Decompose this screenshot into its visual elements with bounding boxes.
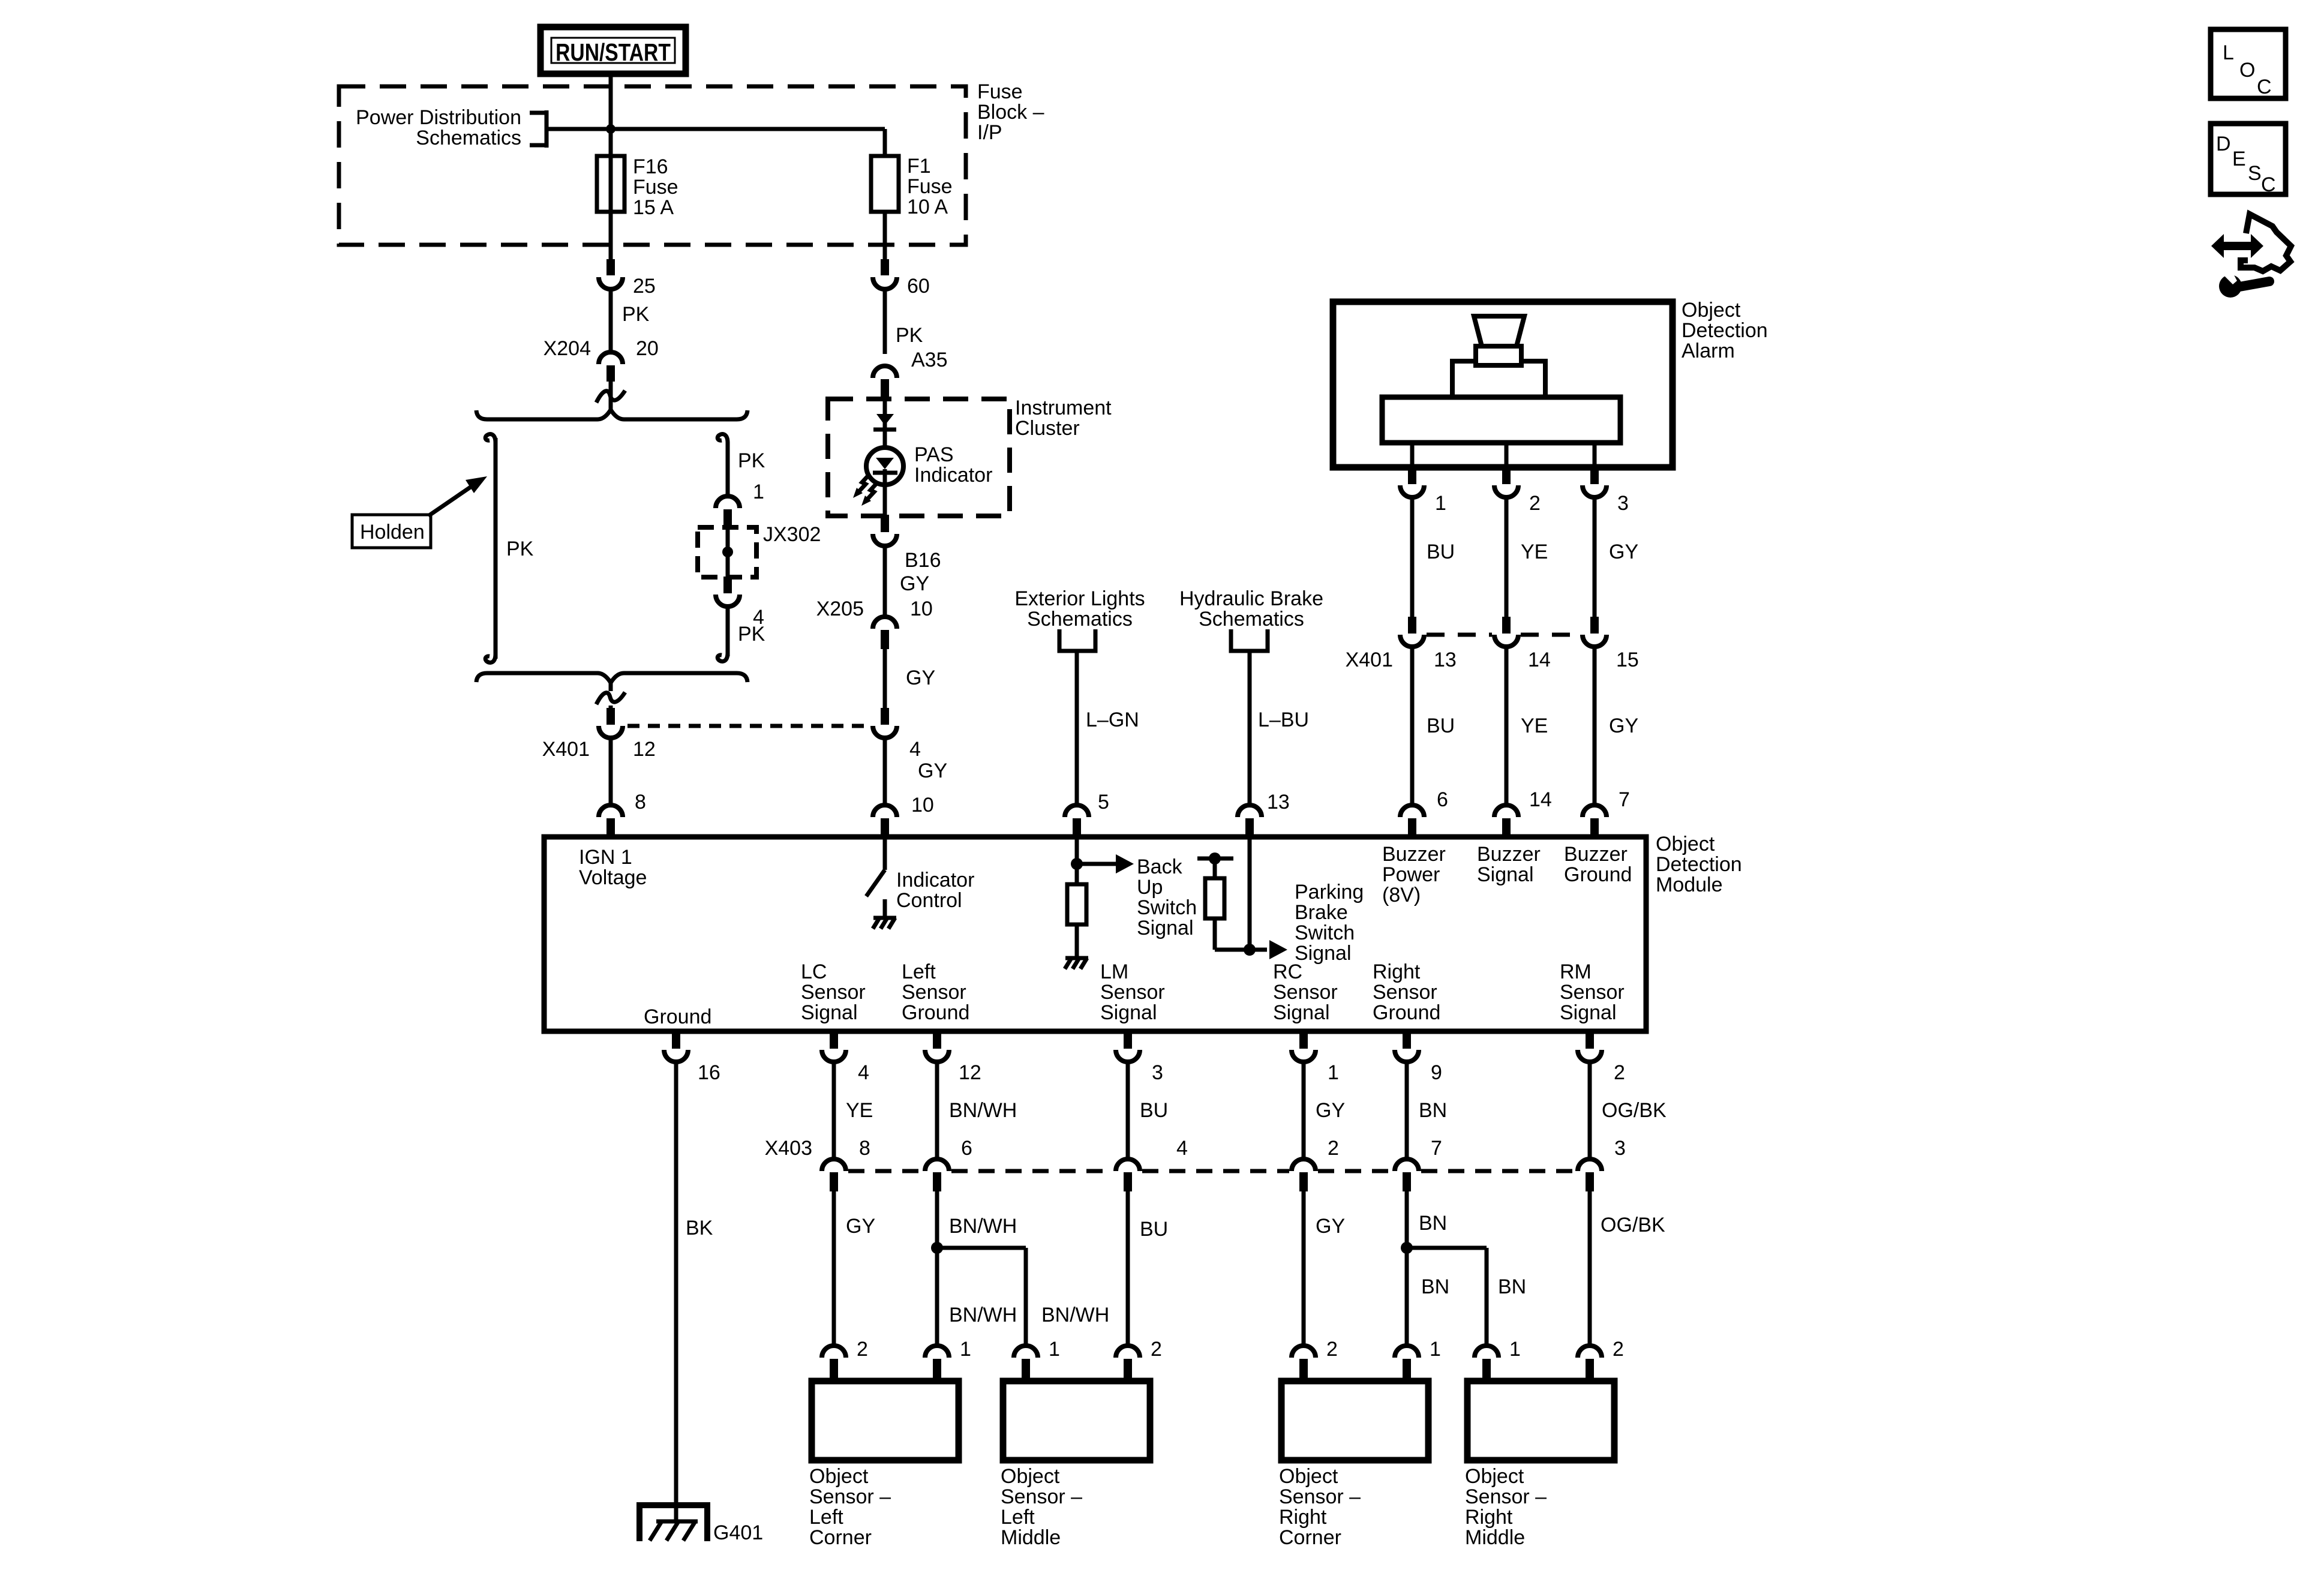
wire YE alarm to X401 <box>1505 497 1509 618</box>
instrument cluster dashed box <box>828 399 1010 516</box>
svg-text:Sensor: Sensor <box>1273 981 1338 1004</box>
sensor pin 1 connector <box>1395 1346 1419 1382</box>
fuse F16 15A <box>597 129 624 260</box>
sensor pin 2 connector <box>822 1346 846 1382</box>
branch wire to RM pin 1 <box>1407 1248 1487 1347</box>
wire PK F16 to X204 <box>609 289 613 352</box>
label Left Sensor Ground <box>902 960 969 1024</box>
label Power Distribution Schematics <box>356 106 521 149</box>
svg-text:2: 2 <box>857 1338 868 1361</box>
svg-text:Signal: Signal <box>801 1001 858 1024</box>
object sensor Right Corner box <box>1281 1381 1428 1460</box>
connector A35 <box>873 366 897 398</box>
svg-text:Object: Object <box>1279 1465 1338 1488</box>
X401 dashed bus right <box>1427 633 1492 637</box>
svg-text:Back: Back <box>1137 855 1183 878</box>
alarm wire 1 <box>1410 443 1415 469</box>
svg-text:Ground: Ground <box>1564 863 1632 886</box>
svg-text:Sensor –: Sensor – <box>1001 1485 1082 1508</box>
car direction icon <box>2211 214 2291 271</box>
wire BN/WH X403 to junction <box>935 1191 939 1347</box>
svg-text:2: 2 <box>1328 1137 1339 1160</box>
svg-text:F1: F1 <box>907 155 931 178</box>
ground G401 symbol <box>639 1505 707 1541</box>
svg-text:12: 12 <box>959 1061 981 1084</box>
bracket from Power Distribution label <box>530 110 547 148</box>
svg-text:L: L <box>2223 41 2234 64</box>
svg-text:RM: RM <box>1560 960 1592 983</box>
LED diode symbol <box>873 458 897 516</box>
left option branch bracket <box>485 434 496 663</box>
wire BN/WH module to X403 <box>935 1062 939 1160</box>
svg-text:GY: GY <box>846 1215 875 1238</box>
resistor back up <box>1067 884 1086 924</box>
svg-text:Schematics: Schematics <box>1027 608 1133 631</box>
svg-text:(8V): (8V) <box>1382 884 1421 906</box>
wire brace to X401-12 <box>609 680 613 709</box>
wire RUN/START to fuse block <box>609 74 613 129</box>
label Buzzer Ground <box>1564 843 1632 886</box>
sensor pin 1 connector <box>1475 1346 1499 1382</box>
svg-text:PK: PK <box>896 324 923 347</box>
wire resistor to junction <box>1215 918 1287 959</box>
svg-text:L–BU: L–BU <box>1258 709 1309 731</box>
svg-text:Sensor: Sensor <box>1373 981 1437 1004</box>
connector X401 pin 13 <box>1400 617 1424 647</box>
object sensor Right Middle box <box>1467 1381 1614 1460</box>
svg-text:Detection: Detection <box>1656 853 1742 876</box>
svg-text:1: 1 <box>1430 1338 1441 1361</box>
svg-text:Signal: Signal <box>1560 1001 1617 1024</box>
svg-text:8: 8 <box>635 791 646 813</box>
svg-text:GY: GY <box>1609 715 1638 737</box>
wire break symbol <box>596 692 625 704</box>
label F1 Fuse 10 A <box>907 155 953 218</box>
wire PK F1 to A35 <box>883 289 887 354</box>
wire break symbol <box>596 391 625 403</box>
JX302 internal wire and node <box>722 526 733 578</box>
Holden arrow <box>428 476 487 516</box>
module bottom pin 2 connector <box>1578 1031 1602 1062</box>
svg-text:Middle: Middle <box>1001 1526 1061 1549</box>
svg-text:Sensor –: Sensor – <box>1279 1485 1361 1508</box>
svg-text:Sensor –: Sensor – <box>1465 1485 1547 1508</box>
svg-text:Sensor: Sensor <box>801 981 866 1004</box>
svg-text:6: 6 <box>961 1137 972 1160</box>
svg-text:OG/BK: OG/BK <box>1601 1214 1665 1236</box>
svg-text:2: 2 <box>1326 1338 1338 1361</box>
Holden callout box <box>352 515 431 548</box>
svg-text:13: 13 <box>1267 791 1290 813</box>
svg-text:Left: Left <box>809 1506 843 1529</box>
svg-text:13: 13 <box>1434 649 1457 671</box>
label Back Up Switch Signal <box>1137 855 1197 939</box>
indicator control switch <box>866 839 885 917</box>
svg-text:X401: X401 <box>542 738 590 761</box>
svg-text:X403: X403 <box>765 1137 812 1160</box>
branch wire to LM pin 1 <box>937 1248 1026 1347</box>
label LM Sensor Signal <box>1100 960 1165 1024</box>
svg-text:Up: Up <box>1137 876 1163 899</box>
X403 dashed bus <box>848 1169 923 1173</box>
module buzzer pin 14 connector <box>1494 805 1518 837</box>
svg-text:X401: X401 <box>1346 649 1393 671</box>
label Indicator Control <box>896 869 974 912</box>
svg-text:BN: BN <box>1419 1212 1447 1235</box>
sensor pin 1 connector <box>1014 1346 1038 1382</box>
svg-text:RC: RC <box>1273 960 1302 983</box>
alarm pin 3 connector <box>1583 467 1607 497</box>
svg-text:15 A: 15 A <box>633 196 674 219</box>
module bottom pin 1 connector <box>1292 1031 1316 1062</box>
svg-text:Buzzer: Buzzer <box>1382 843 1446 866</box>
svg-text:Holden: Holden <box>360 521 425 544</box>
wire BU module to X403 <box>1126 1062 1130 1160</box>
svg-text:Middle: Middle <box>1465 1526 1525 1549</box>
LED light arrows <box>853 475 877 506</box>
svg-text:Ground: Ground <box>902 1001 969 1024</box>
svg-text:Object: Object <box>1682 299 1741 322</box>
svg-text:A35: A35 <box>911 349 948 371</box>
svg-text:E: E <box>2232 148 2246 170</box>
svg-text:Sensor: Sensor <box>1560 981 1625 1004</box>
module bottom pin 9 connector <box>1395 1031 1419 1062</box>
connector X204 pin 20 <box>599 352 623 382</box>
svg-text:8: 8 <box>859 1137 870 1160</box>
connector X403 pin 3 <box>1578 1159 1602 1191</box>
connector pin 25 below F16 <box>599 259 623 289</box>
svg-text:14: 14 <box>1528 649 1551 671</box>
svg-text:4: 4 <box>909 738 921 761</box>
svg-text:S: S <box>2248 162 2262 185</box>
ground inside module <box>873 916 896 920</box>
fuse block I/P dashed box <box>339 86 966 245</box>
svg-text:GY: GY <box>906 667 935 689</box>
svg-text:GY: GY <box>1609 541 1638 563</box>
label Object Sensor Left Corner <box>809 1465 891 1549</box>
svg-text:Switch: Switch <box>1295 921 1355 944</box>
svg-text:Object: Object <box>1001 1465 1060 1488</box>
svg-text:Schematics: Schematics <box>1199 608 1304 631</box>
svg-text:Fuse: Fuse <box>633 176 678 199</box>
bottom option brace <box>476 673 747 683</box>
connector X205 pin 10 <box>873 617 897 649</box>
label Object Detection Module <box>1656 833 1742 896</box>
svg-text:GY: GY <box>1316 1099 1345 1122</box>
svg-text:Buzzer: Buzzer <box>1477 843 1541 866</box>
svg-text:6: 6 <box>1437 788 1448 811</box>
svg-text:Signal: Signal <box>1100 1001 1157 1024</box>
svg-text:9: 9 <box>1431 1061 1442 1084</box>
svg-text:Alarm: Alarm <box>1682 340 1735 362</box>
svg-text:Right: Right <box>1465 1506 1513 1529</box>
svg-text:Corner: Corner <box>809 1526 872 1549</box>
svg-text:PAS: PAS <box>914 443 954 466</box>
svg-text:BN: BN <box>1419 1099 1447 1122</box>
connector X403 pin 2 <box>1292 1159 1316 1191</box>
svg-text:Corner: Corner <box>1279 1526 1341 1549</box>
svg-text:Right: Right <box>1279 1506 1327 1529</box>
wire GY module to X403 <box>1302 1062 1306 1160</box>
wire BU alarm to X401 <box>1410 497 1415 618</box>
svg-text:1: 1 <box>1435 492 1446 515</box>
svg-text:PK: PK <box>506 538 534 560</box>
connector X401 pin 15 <box>1583 617 1607 647</box>
DESC icon box <box>2211 124 2286 196</box>
wire OG/BK module to X403 <box>1588 1062 1592 1160</box>
svg-text:25: 25 <box>633 275 656 298</box>
label IGN 1 Voltage <box>579 846 647 889</box>
resistor parking brake <box>1205 878 1224 918</box>
svg-text:1: 1 <box>960 1338 971 1361</box>
object detection alarm box <box>1333 302 1673 467</box>
module pin 10 connector <box>873 805 897 837</box>
wire B16 to X205 <box>883 546 887 618</box>
svg-text:BK: BK <box>686 1217 713 1239</box>
svg-text:60: 60 <box>907 275 930 298</box>
svg-text:Module: Module <box>1656 873 1723 896</box>
svg-text:Cluster: Cluster <box>1015 417 1080 440</box>
label Fuse Block - I/P <box>977 80 1044 144</box>
module pin 5 connector <box>1065 805 1089 837</box>
svg-text:2: 2 <box>1529 492 1541 515</box>
alarm wire 3 <box>1593 443 1597 469</box>
svg-text:D: D <box>2216 133 2231 155</box>
svg-text:1: 1 <box>753 481 764 503</box>
svg-text:7: 7 <box>1431 1137 1442 1160</box>
svg-text:PK: PK <box>622 303 650 326</box>
svg-text:Indicator: Indicator <box>896 869 974 891</box>
svg-text:Voltage: Voltage <box>579 866 647 889</box>
svg-text:Schematics: Schematics <box>416 127 521 149</box>
svg-text:PK: PK <box>738 449 765 472</box>
label Buzzer Power (8V) <box>1382 843 1446 906</box>
svg-text:OG/BK: OG/BK <box>1602 1099 1667 1122</box>
svg-text:BN/WH: BN/WH <box>1041 1304 1109 1326</box>
label PAS Indicator <box>914 443 992 487</box>
module bottom pin 16 connector <box>664 1031 688 1062</box>
object detection module box <box>544 837 1646 1031</box>
svg-text:G401: G401 <box>713 1521 763 1544</box>
svg-text:10: 10 <box>910 598 933 620</box>
svg-text:LM: LM <box>1100 960 1128 983</box>
svg-text:GY: GY <box>900 572 929 595</box>
wire X205 to X401-4 <box>883 649 887 709</box>
connector X401 pin 12 <box>599 708 623 738</box>
wire YE module to X403 <box>832 1062 836 1160</box>
label Instrument Cluster <box>1015 397 1112 440</box>
svg-text:1: 1 <box>1328 1061 1339 1084</box>
wire GY X403 to LC sensor <box>832 1191 836 1347</box>
alarm speaker base <box>1382 397 1620 443</box>
svg-text:PK: PK <box>738 623 765 646</box>
module pin 8 connector <box>599 805 623 837</box>
wire BK ground to G401 <box>674 1062 678 1521</box>
ground inside module <box>1065 956 1088 960</box>
connector pin 60 below F1 <box>873 259 897 289</box>
svg-text:BN/WH: BN/WH <box>949 1304 1017 1326</box>
alarm wire 2 <box>1505 443 1509 469</box>
wire resistor to ground <box>1075 924 1079 956</box>
svg-text:C: C <box>2257 76 2272 98</box>
wire GY X403 to RC sensor <box>1302 1191 1306 1347</box>
connector X403 pin 6 <box>925 1159 949 1191</box>
bracket exterior lights <box>1059 629 1095 651</box>
module buzzer pin 7 connector <box>1583 805 1607 837</box>
svg-text:Detection: Detection <box>1682 319 1768 342</box>
sensor pin 2 connector <box>1116 1346 1140 1382</box>
svg-text:Sensor –: Sensor – <box>809 1485 891 1508</box>
sensor pin 2 connector <box>1578 1346 1602 1382</box>
label Object Detection Alarm <box>1682 299 1768 362</box>
label RC Sensor Signal <box>1273 960 1338 1024</box>
svg-text:Control: Control <box>896 889 962 912</box>
top option brace <box>476 410 747 419</box>
svg-text:Indicator: Indicator <box>914 464 992 487</box>
wire X204 down to option brace <box>609 382 613 410</box>
svg-text:Switch: Switch <box>1137 896 1197 919</box>
svg-text:Ground: Ground <box>1373 1001 1440 1024</box>
svg-text:Sensor: Sensor <box>1100 981 1165 1004</box>
svg-text:10 A: 10 A <box>907 196 948 218</box>
svg-text:15: 15 <box>1616 649 1639 671</box>
svg-text:I/P: I/P <box>977 121 1002 144</box>
svg-text:3: 3 <box>1617 492 1629 515</box>
svg-text:Ground: Ground <box>644 1005 711 1028</box>
svg-text:2: 2 <box>1614 1061 1625 1084</box>
alarm speaker mid block <box>1452 361 1545 397</box>
back up switch signal branch <box>1071 839 1134 884</box>
alarm pin 1 connector <box>1400 467 1424 497</box>
svg-text:12: 12 <box>633 738 656 761</box>
svg-text:Fuse: Fuse <box>907 175 953 198</box>
module pin 13 connector <box>1238 805 1262 837</box>
label RM Sensor Signal <box>1560 960 1625 1024</box>
svg-text:LC: LC <box>801 960 827 983</box>
alarm pin 2 connector <box>1494 467 1518 497</box>
svg-text:Block –: Block – <box>977 101 1044 124</box>
svg-text:2: 2 <box>1151 1338 1162 1361</box>
connector X403 pin 8 <box>822 1159 846 1191</box>
junction node left ground <box>931 1242 943 1254</box>
svg-text:BU: BU <box>1140 1099 1168 1122</box>
right option branch wire top <box>717 434 728 496</box>
svg-text:Object: Object <box>809 1465 869 1488</box>
svg-text:10: 10 <box>911 794 934 816</box>
PAS indicator LED circle <box>866 448 903 485</box>
bracket hydraulic brake <box>1231 629 1268 651</box>
module bottom pin 3 connector <box>1116 1031 1140 1062</box>
svg-text:Hydraulic Brake: Hydraulic Brake <box>1179 587 1323 610</box>
svg-text:B16: B16 <box>905 549 941 572</box>
connector B16 below cluster <box>873 515 897 546</box>
label Object Sensor Left Middle <box>1001 1465 1082 1549</box>
connector X401 pin 4 <box>873 708 897 738</box>
svg-text:20: 20 <box>636 337 659 360</box>
object sensor Left Corner box <box>812 1381 959 1460</box>
svg-text:3: 3 <box>1614 1137 1626 1160</box>
svg-text:C: C <box>2261 173 2276 196</box>
svg-text:Object: Object <box>1465 1465 1524 1488</box>
module bottom pin 12 connector <box>925 1031 949 1062</box>
module buzzer pin 6 connector <box>1400 805 1424 837</box>
svg-text:1: 1 <box>1049 1338 1060 1361</box>
svg-text:Fuse: Fuse <box>977 80 1023 103</box>
svg-text:Signal: Signal <box>1477 863 1534 886</box>
wire X401-12 to module pin 8 <box>609 738 613 805</box>
svg-text:4: 4 <box>1176 1137 1188 1160</box>
power source box RUN/START <box>541 27 686 74</box>
wire GY X401 to module <box>1593 647 1597 805</box>
svg-text:Instrument: Instrument <box>1015 397 1112 419</box>
wrench icon <box>2219 269 2269 298</box>
junction node right ground <box>1401 1242 1413 1254</box>
svg-text:RUN/START: RUN/START <box>556 38 671 66</box>
junction block JX302 dashed box <box>698 527 756 577</box>
svg-text:Parking: Parking <box>1295 881 1364 903</box>
junction node <box>606 124 615 134</box>
wire OG/BK X403 to RM sensor <box>1588 1191 1592 1347</box>
svg-text:F16: F16 <box>633 155 668 178</box>
svg-text:BU: BU <box>1427 715 1455 737</box>
wire GY alarm to X401 <box>1593 497 1597 618</box>
wire BN module to X403 <box>1405 1062 1409 1160</box>
svg-text:X205: X205 <box>816 598 864 620</box>
wire branch to F1 <box>547 127 885 131</box>
svg-text:1: 1 <box>1509 1338 1521 1361</box>
svg-text:GY: GY <box>1316 1215 1345 1238</box>
label LC Sensor Signal <box>801 960 866 1024</box>
svg-text:BN: BN <box>1498 1275 1526 1298</box>
svg-text:Buzzer: Buzzer <box>1564 843 1628 866</box>
label Right Sensor Ground <box>1373 960 1440 1024</box>
svg-text:14: 14 <box>1529 788 1552 811</box>
svg-text:7: 7 <box>1619 788 1630 811</box>
svg-text:4: 4 <box>858 1061 869 1084</box>
sensor pin 2 connector <box>1292 1346 1316 1382</box>
sensor pin 1 connector <box>925 1346 949 1382</box>
svg-text:X204: X204 <box>544 337 591 360</box>
svg-text:L–GN: L–GN <box>1086 709 1139 731</box>
svg-text:Left: Left <box>1001 1506 1035 1529</box>
alarm speaker horn <box>1474 316 1524 346</box>
label Object Sensor Right Corner <box>1279 1465 1361 1549</box>
svg-text:BN: BN <box>1421 1275 1449 1298</box>
label Hydraulic Brake Schematics <box>1179 587 1323 631</box>
wire X401-4 to module pin 10 <box>883 738 887 805</box>
wire BN X403 to junction <box>1405 1191 1409 1347</box>
svg-text:Signal: Signal <box>1295 942 1352 965</box>
wire into cluster <box>883 398 887 446</box>
svg-text:IGN 1: IGN 1 <box>579 846 632 869</box>
wire YE X401 to module <box>1505 647 1509 805</box>
svg-text:Power Distribution: Power Distribution <box>356 106 521 129</box>
svg-text:Exterior Lights: Exterior Lights <box>1014 587 1145 610</box>
label Exterior Lights Schematics <box>1014 587 1145 631</box>
connector X403 pin 4 <box>1116 1159 1140 1191</box>
svg-text:Signal: Signal <box>1273 1001 1330 1024</box>
svg-text:Power: Power <box>1382 863 1440 886</box>
LOC icon box <box>2211 29 2286 98</box>
svg-text:5: 5 <box>1098 791 1109 813</box>
svg-text:BU: BU <box>1427 541 1455 563</box>
module bottom pin 4 connector <box>822 1031 846 1062</box>
wire L-BU to module pin 13 <box>1248 651 1252 805</box>
svg-text:2: 2 <box>1613 1338 1624 1361</box>
svg-text:Left: Left <box>902 960 936 983</box>
connector JX302 pin 1 <box>716 496 740 526</box>
right option branch wire bottom <box>717 607 728 661</box>
